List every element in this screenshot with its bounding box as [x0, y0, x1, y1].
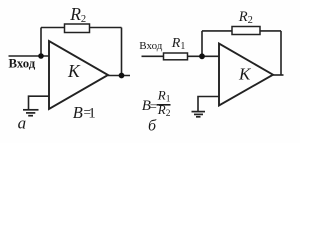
wire ground input a: [29, 96, 50, 109]
wire feedback right vertical b: [280, 31, 282, 75]
wire feedback top rail b: [202, 30, 281, 32]
wire feedback left vertical b: [201, 31, 203, 56]
svg-text:B: B: [73, 103, 83, 122]
svg-text:1: 1: [88, 106, 96, 122]
wire feedback top rail a: [41, 27, 122, 29]
wire input a: [9, 55, 50, 57]
node input junction a: [38, 53, 44, 59]
resistor R2 (left): [65, 24, 90, 33]
wire R1 to op-amp b: [188, 55, 220, 57]
wire feedback right vertical a: [121, 28, 123, 76]
svg-text:=: =: [150, 99, 157, 113]
formula B = R1/R2: [142, 87, 171, 119]
node input junction b: [199, 53, 205, 59]
svg-text:Вход: Вход: [139, 40, 162, 52]
wire input b: [142, 55, 164, 57]
ground (left): [23, 110, 39, 116]
ground (right): [192, 112, 206, 117]
svg-text:Вход: Вход: [9, 57, 36, 71]
op-amp K (right): [219, 44, 273, 106]
svg-text:б: б: [148, 118, 157, 135]
svg-text:K: K: [238, 65, 252, 84]
node output junction a: [119, 73, 125, 79]
wire output a: [108, 75, 130, 77]
resistor R1: [164, 53, 188, 60]
wire feedback left vertical a: [40, 28, 42, 57]
wire ground input b: [198, 97, 219, 112]
svg-text:а: а: [18, 114, 27, 133]
svg-text:K: K: [67, 61, 81, 81]
resistor R2 (right): [232, 27, 260, 35]
wire output b: [273, 74, 284, 76]
op-amp K (left): [49, 41, 108, 109]
